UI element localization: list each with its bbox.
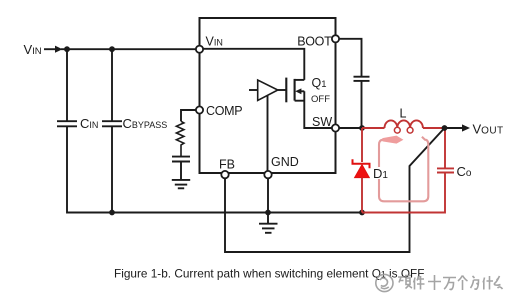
resistor RCOMP [176, 121, 184, 156]
transistor Q1 gate bar [285, 78, 287, 103]
capacitor CCOMP [172, 157, 190, 162]
diode D1 [353, 159, 370, 168]
Q1 source lead [295, 100, 305, 102]
internal boot diode [258, 80, 278, 100]
pin circle SW [332, 124, 339, 131]
wire VIN rail [61, 48, 196, 50]
watermark text 硬件十万个为什么 [398, 275, 503, 290]
inductor L [385, 120, 423, 128]
capacitor Cboot [354, 77, 370, 81]
node dot GND rail [265, 210, 271, 216]
node dot CBYPASS junction [109, 46, 115, 52]
char 个 [458, 276, 468, 291]
svg-text:CBYPASS: CBYPASS [123, 116, 168, 131]
pin circle COMP [196, 106, 203, 113]
pin circle BOOT [332, 35, 339, 42]
wire COMP to RC network [181, 110, 196, 121]
svg-text:OFF: OFF [311, 94, 330, 105]
wire diode anode to GND pin [267, 95, 269, 171]
svg-text:Q1: Q1 [312, 76, 327, 90]
node dot D1 ground [359, 210, 365, 216]
label OFF [311, 94, 330, 105]
internal boot diode stub wire [249, 89, 258, 91]
node dot CIN junction [64, 46, 70, 52]
node dot VOUT [442, 125, 448, 131]
node dot CBYPASS ground [109, 210, 115, 216]
ground symbol at GND [259, 213, 278, 233]
wire ground rail [67, 212, 362, 214]
svg-text:GND: GND [271, 155, 299, 169]
wire Cboot to SW node [361, 81, 363, 128]
wire FB drop, bottom run, riser and diagonal to VOUT node [225, 128, 445, 252]
wire diode cathode to gate [278, 89, 287, 91]
svg-text:SW: SW [312, 115, 332, 129]
wire CIN bottom drop [67, 127, 69, 213]
wire BOOT to bootstrap cap [339, 39, 361, 76]
label pin SW [312, 115, 332, 129]
label VIN input [24, 42, 42, 57]
VOUT arrow [445, 127, 463, 129]
label pin FB [219, 158, 235, 172]
char 为 [471, 276, 479, 289]
pin circle VIN [196, 46, 203, 53]
label pin VIN [206, 35, 223, 49]
label CIN [80, 116, 98, 131]
Q1 source riser wire and wire to SW pin [304, 91, 332, 128]
label D1 [373, 167, 390, 179]
red wire D1 to ground rail [361, 178, 363, 213]
red wire Co top drop [444, 128, 446, 168]
label pin COMP [206, 104, 242, 118]
char 么 [494, 276, 502, 289]
capacitor CIN [57, 121, 77, 126]
svg-text:FB: FB [219, 158, 235, 172]
red wire SW node to D1 [361, 128, 363, 162]
char 什 [483, 276, 493, 290]
current loop indicator [379, 136, 428, 202]
IC box U1 outline [200, 18, 336, 173]
label CBYPASS [123, 116, 168, 131]
char 件 [414, 276, 425, 290]
wire CIN top drop [66, 49, 68, 120]
wire CBYPASS top drop [111, 49, 113, 120]
label pin BOOT [297, 34, 332, 48]
char 十 [428, 275, 441, 290]
Q1 drain lead [295, 79, 305, 81]
svg-text:VIN: VIN [24, 42, 42, 57]
capacitor Co [437, 168, 454, 172]
label Co [457, 164, 472, 179]
label VOUT [473, 121, 504, 136]
svg-text:Co: Co [457, 164, 472, 179]
label L [400, 107, 407, 121]
VIN input arrow [44, 48, 55, 50]
node dot SW junction [359, 125, 365, 131]
red wire bottom run D1 to Co and Co bottom drop [362, 173, 445, 213]
pin circle FB [221, 171, 228, 178]
svg-text:VIN: VIN [206, 35, 223, 49]
red wire inductor to VOUT node [423, 127, 445, 129]
capacitor CBYPASS [102, 121, 122, 126]
char 万 [443, 278, 456, 290]
svg-text:COMP: COMP [206, 104, 242, 118]
char 硬 [398, 276, 412, 289]
internal VIN rail wire [203, 49, 304, 80]
svg-text:VOUT: VOUT [473, 121, 504, 136]
label pin GND [271, 155, 299, 169]
svg-text:L: L [400, 107, 407, 121]
svg-text:CIN: CIN [80, 116, 98, 131]
ground symbol at COMP network [172, 180, 190, 188]
wire SW pin to node [339, 127, 362, 129]
watermark logo circle [376, 274, 393, 291]
red wire SW node to inductor [362, 127, 385, 129]
wire GND pin drop [267, 179, 269, 213]
pin circle GND [264, 171, 271, 178]
svg-text:BOOT: BOOT [297, 34, 332, 48]
wire CBYPASS bottom drop [111, 127, 113, 213]
Q1 body arrow lead [300, 90, 304, 92]
wire CCOMP to ground [180, 162, 182, 180]
transistor Q1 body bar [294, 79, 296, 101]
label Q1 [312, 76, 327, 90]
